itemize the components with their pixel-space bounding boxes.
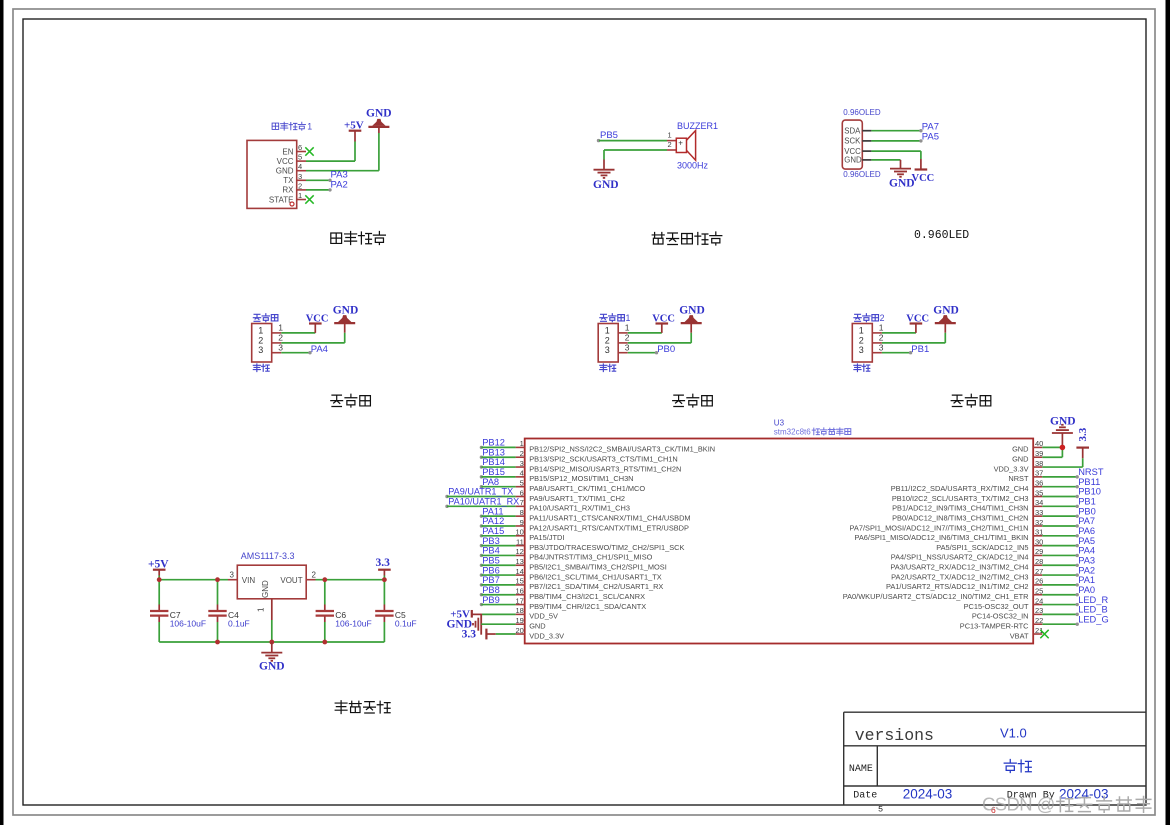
svg-text:PA3/USART2_RX/ADC12_IN3/TIM2_C: PA3/USART2_RX/ADC12_IN3/TIM2_CH4 [890,563,1028,572]
svg-text:7: 7 [520,498,524,507]
svg-text:PA7/SPI1_MOSI/ADC12_IN7//TIM3_: PA7/SPI1_MOSI/ADC12_IN7//TIM3_CH2/TIM1_C… [850,523,1029,532]
svg-text:VIN: VIN [242,576,256,585]
svg-text:VDD_5V: VDD_5V [529,612,558,621]
svg-text:PB4: PB4 [482,546,500,556]
svg-text:CSDN @: CSDN @ [982,794,1055,815]
svg-text:GND: GND [276,167,294,176]
svg-text:VCC: VCC [906,313,929,324]
svg-text:PB8/TIM4_CH3/I2C1_SCL/CANRX: PB8/TIM4_CH3/I2C1_SCL/CANRX [529,592,645,601]
svg-text:2: 2 [520,449,524,458]
svg-text:PB5/I2C1_SMBAI/TIM3_CH2/SPI1_M: PB5/I2C1_SMBAI/TIM3_CH2/SPI1_MOSI [529,563,667,572]
svg-text:3: 3 [298,172,302,181]
svg-text:PA12/USART1_RTS/CANTX/TIM1_ETR: PA12/USART1_RTS/CANTX/TIM1_ETR/USBDP [529,523,689,532]
svg-text:PB1: PB1 [911,344,929,355]
svg-text:SCK: SCK [844,137,861,146]
svg-text:GND: GND [529,621,545,630]
svg-text:1: 1 [257,607,266,612]
svg-text:GND: GND [1012,455,1028,464]
svg-text:1: 1 [859,325,864,335]
svg-text:24: 24 [1035,596,1043,605]
svg-text:28: 28 [1035,557,1043,566]
svg-text:GND: GND [261,580,270,598]
svg-text:PA9/UATR1_TX: PA9/UATR1_TX [448,487,513,497]
svg-text:1: 1 [626,313,631,323]
svg-text:1: 1 [298,191,302,200]
svg-text:Date: Date [853,791,877,802]
svg-text:PA12: PA12 [482,516,504,526]
svg-text:GND: GND [844,156,862,165]
svg-text:PB0/ADC12_IN8/TIM3_CH3/TIM1_CH: PB0/ADC12_IN8/TIM3_CH3/TIM1_CH2N [892,513,1028,522]
svg-text:19: 19 [515,616,523,625]
svg-text:2024-03: 2024-03 [903,787,953,802]
svg-text:3: 3 [230,570,235,579]
svg-text:VCC: VCC [306,313,329,324]
svg-text:PB10: PB10 [1078,487,1101,497]
svg-text:PB7/I2C1_SDA/TIM4_CH2/USART1_R: PB7/I2C1_SDA/TIM4_CH2/USART1_RX [529,582,663,591]
svg-text:GND: GND [1050,416,1076,428]
svg-text:PB9/TIM4_CHR/I2C1_SDA/CANTX: PB9/TIM4_CHR/I2C1_SDA/CANTX [529,602,646,611]
svg-text:25: 25 [1035,587,1043,596]
svg-text:NRST: NRST [1008,474,1029,483]
svg-text:PB0: PB0 [657,344,675,355]
svg-text:LED_G: LED_G [1078,614,1109,624]
svg-text:PB4/JNTRST/TIM3_CH1/SPI1_MISO: PB4/JNTRST/TIM3_CH1/SPI1_MISO [529,553,652,562]
svg-text:PB6: PB6 [482,565,500,575]
svg-text:30: 30 [1035,537,1043,546]
svg-text:PB15: PB15 [482,467,505,477]
svg-text:3: 3 [258,345,263,355]
svg-text:NAME: NAME [849,764,873,775]
svg-text:PA1/USART2_RTS/ADC12_IN1/TIM2_: PA1/USART2_RTS/ADC12_IN1/TIM2_CH2 [886,582,1029,591]
svg-text:15: 15 [515,577,523,586]
svg-text:3: 3 [278,343,283,353]
svg-text:V1.0: V1.0 [1000,726,1027,741]
svg-text:VCC: VCC [277,157,294,166]
svg-text:5: 5 [878,805,883,815]
svg-text:0.96OLED: 0.96OLED [843,170,881,179]
svg-text:106-10uF: 106-10uF [170,618,206,628]
svg-text:1: 1 [278,323,283,333]
svg-text:PA4: PA4 [1078,546,1095,556]
svg-text:10: 10 [515,528,523,537]
svg-text:GND: GND [1012,445,1028,454]
svg-text:3: 3 [879,343,884,353]
svg-text:32: 32 [1035,518,1043,527]
svg-text:17: 17 [515,596,523,605]
svg-text:PB1/ADC12_IN9/TIM3_CH4/TIM1_CH: PB1/ADC12_IN9/TIM3_CH4/TIM1_CH3N [892,504,1028,513]
svg-text:GND: GND [679,305,705,317]
svg-text:PB13/SPI2_SCK/USART3_CTS/TIM1_: PB13/SPI2_SCK/USART3_CTS/TIM1_CH1N [529,455,678,464]
svg-text:9: 9 [520,518,524,527]
svg-text:12: 12 [515,547,523,556]
svg-text:NRST: NRST [1078,467,1104,477]
svg-text:PB5: PB5 [600,130,618,141]
svg-text:31: 31 [1035,528,1043,537]
svg-text:3: 3 [859,345,864,355]
svg-text:29: 29 [1035,547,1043,556]
svg-text:PA5: PA5 [922,132,939,143]
svg-text:VCC: VCC [652,313,675,324]
svg-text:6: 6 [520,488,524,497]
svg-text:PA10/UATR1_RX: PA10/UATR1_RX [448,497,519,507]
svg-text:PB3/JTDO/TRACESWO/TIM2_CH2/SPI: PB3/JTDO/TRACESWO/TIM2_CH2/SPI1_SCK [529,543,684,552]
svg-text:23: 23 [1035,606,1043,615]
svg-text:2: 2 [880,313,885,323]
svg-text:40: 40 [1035,439,1043,448]
svg-text:PA0/WKUP/USART2_CTS/ADC12_IN0/: PA0/WKUP/USART2_CTS/ADC12_IN0/TIM2_CH1_E… [843,592,1029,601]
svg-text:PA8/USART1_CK/TIM1_CH1/MCO: PA8/USART1_CK/TIM1_CH1/MCO [529,484,645,493]
svg-text:1: 1 [879,323,884,333]
svg-text:PB12: PB12 [482,438,505,448]
svg-text:PC13-TAMPER-RTC: PC13-TAMPER-RTC [960,621,1029,630]
svg-text:2: 2 [668,140,672,149]
svg-text:PB7: PB7 [482,575,500,585]
svg-text:2: 2 [258,335,263,345]
svg-text:GND: GND [593,179,619,191]
svg-text:PA7: PA7 [1078,516,1095,526]
svg-text:VBAT: VBAT [1010,631,1029,640]
svg-text:38: 38 [1035,459,1043,468]
svg-text:PA9/USART1_TX/TIM1_CH2: PA9/USART1_TX/TIM1_CH2 [529,494,625,503]
svg-text:26: 26 [1035,577,1043,586]
svg-text:1: 1 [520,439,524,448]
svg-text:1: 1 [668,131,672,140]
svg-text:27: 27 [1035,567,1043,576]
svg-text:PA2: PA2 [331,179,348,190]
svg-text:PB0: PB0 [1078,506,1096,516]
svg-text:3.3: 3.3 [1077,427,1089,441]
svg-text:2: 2 [298,181,302,190]
svg-text:1: 1 [307,122,312,132]
svg-text:PB14/SPI2_MISO/USART3_RTS/TIM1: PB14/SPI2_MISO/USART3_RTS/TIM1_CH2N [529,464,681,473]
svg-text:20: 20 [515,626,523,635]
svg-text:GND: GND [333,305,359,317]
svg-text:0.1uF: 0.1uF [228,618,250,628]
svg-text:6: 6 [298,143,302,152]
svg-text:VCC: VCC [912,173,935,184]
svg-text:TX: TX [283,176,294,185]
svg-text:PA6: PA6 [1078,526,1095,536]
svg-text:+: + [678,139,683,148]
svg-text:PA1: PA1 [1078,575,1095,585]
svg-text:PB14: PB14 [482,457,505,467]
svg-text:PB13: PB13 [482,447,505,457]
svg-text:2: 2 [859,335,864,345]
svg-text:PB11/I2C2_SDA/USART3_RX/TIM2_C: PB11/I2C2_SDA/USART3_RX/TIM2_CH4 [891,484,1029,493]
svg-text:PC14-OSC32_IN: PC14-OSC32_IN [972,612,1029,621]
svg-text:PA2: PA2 [1078,565,1095,575]
svg-text:GND: GND [259,661,285,673]
svg-text:+5V: +5V [344,120,364,132]
svg-text:PB5: PB5 [482,555,500,565]
svg-text:0.960LED: 0.960LED [914,229,969,242]
svg-text:3: 3 [625,343,630,353]
svg-text:PB15/SP12_MOSI/TIM1_CH3N: PB15/SP12_MOSI/TIM1_CH3N [529,474,633,483]
svg-text:PB11: PB11 [1078,477,1100,487]
svg-text:18: 18 [515,606,523,615]
svg-text:PB12/SPI2_NSS/I2C2_SMBAI/USART: PB12/SPI2_NSS/I2C2_SMBAI/USART3_CK/TIM1_… [529,445,715,454]
svg-text:33: 33 [1035,508,1043,517]
svg-text:PB6/I2C1_SCL/TIM4_CH1/USART1_T: PB6/I2C1_SCL/TIM4_CH1/USART1_TX [529,572,662,581]
svg-text:VCC: VCC [844,147,861,156]
svg-text:PA15/JTDI: PA15/JTDI [529,533,564,542]
svg-text:PA11/USART1_CTS/CANRX/TIM1_CH4: PA11/USART1_CTS/CANRX/TIM1_CH4/USBDM [529,513,690,522]
svg-text:AMS1117-3.3: AMS1117-3.3 [241,551,295,561]
svg-text:PA0: PA0 [1078,585,1095,595]
svg-text:4: 4 [520,469,524,478]
svg-text:LED_R: LED_R [1078,595,1108,605]
svg-text:GND: GND [933,305,959,317]
svg-text:LED_B: LED_B [1078,605,1107,615]
svg-text:versions: versions [855,726,934,745]
svg-text:EN: EN [282,147,293,156]
svg-text:34: 34 [1035,498,1043,507]
svg-text:RX: RX [282,186,294,195]
svg-text:4: 4 [298,162,302,171]
svg-text:PA4: PA4 [311,344,328,355]
svg-text:VOUT: VOUT [280,576,302,585]
svg-text:5: 5 [520,478,524,487]
svg-text:PA11: PA11 [482,506,503,516]
svg-text:BUZZER1: BUZZER1 [677,121,718,131]
svg-text:8: 8 [520,508,524,517]
svg-text:37: 37 [1035,469,1043,478]
svg-text:GND: GND [366,108,392,120]
svg-text:SDA: SDA [844,127,861,136]
svg-text:5: 5 [298,153,302,162]
svg-text:PA6/SPI1_MISO/ADC12_IN6/TIM3_C: PA6/SPI1_MISO/ADC12_IN6/TIM3_CH1/TIM1_BK… [854,533,1028,542]
svg-text:VDD_3.3V: VDD_3.3V [529,631,564,640]
svg-text:GND: GND [889,178,915,190]
svg-text:PA8: PA8 [482,477,499,487]
svg-text:U3: U3 [774,419,785,428]
svg-text:39: 39 [1035,449,1043,458]
svg-text:PB1: PB1 [1078,497,1096,507]
svg-text:2: 2 [605,335,610,345]
svg-text:PB8: PB8 [482,585,500,595]
svg-text:PB10/I2C2_SCL/USART3_TX/TIM2_C: PB10/I2C2_SCL/USART3_TX/TIM2_CH3 [892,494,1029,503]
svg-text:2: 2 [879,333,884,343]
svg-text:21: 21 [1035,626,1043,635]
svg-text:VDD_3.3V: VDD_3.3V [994,464,1029,473]
svg-text:1: 1 [258,325,263,335]
svg-text:PA4/SPI1_NSS/USART2_CK/ADC12_I: PA4/SPI1_NSS/USART2_CK/ADC12_IN4 [891,553,1029,562]
svg-text:0.96OLED: 0.96OLED [843,108,881,117]
svg-text:36: 36 [1035,478,1043,487]
svg-text:1: 1 [605,325,610,335]
svg-text:2: 2 [625,333,630,343]
svg-text:2: 2 [278,333,283,343]
svg-text:2: 2 [312,570,317,579]
svg-text:PA5: PA5 [1078,536,1095,546]
svg-text:PA10/USART1_RX/TIM1_CH3: PA10/USART1_RX/TIM1_CH3 [529,504,630,513]
svg-text:106-10uF: 106-10uF [335,618,371,628]
svg-text:PB9: PB9 [482,595,500,605]
svg-text:16: 16 [515,587,523,596]
svg-text:PA3: PA3 [1078,555,1095,565]
svg-text:PB3: PB3 [482,536,500,546]
svg-text:stm32c8t6: stm32c8t6 [774,428,811,437]
svg-text:35: 35 [1035,488,1043,497]
svg-text:22: 22 [1035,616,1043,625]
svg-text:3000Hz: 3000Hz [677,161,709,171]
svg-text:PA5/SPI1_SCK/ADC12_IN5: PA5/SPI1_SCK/ADC12_IN5 [936,543,1028,552]
svg-text:PA15: PA15 [482,526,504,536]
svg-text:PA2/USART2_TX/ADC12_IN2/TIM2_C: PA2/USART2_TX/ADC12_IN2/TIM2_CH3 [891,572,1028,581]
svg-text:14: 14 [515,567,523,576]
svg-text:3: 3 [605,345,610,355]
svg-text:PC15-OSC32_OUT: PC15-OSC32_OUT [964,602,1029,611]
svg-text:13: 13 [515,557,523,566]
svg-text:3: 3 [520,459,524,468]
svg-text:0.1uF: 0.1uF [395,618,417,628]
svg-text:3.3: 3.3 [462,629,477,641]
svg-text:11: 11 [516,537,524,546]
svg-text:1: 1 [625,323,630,333]
svg-text:3.3: 3.3 [376,557,391,569]
